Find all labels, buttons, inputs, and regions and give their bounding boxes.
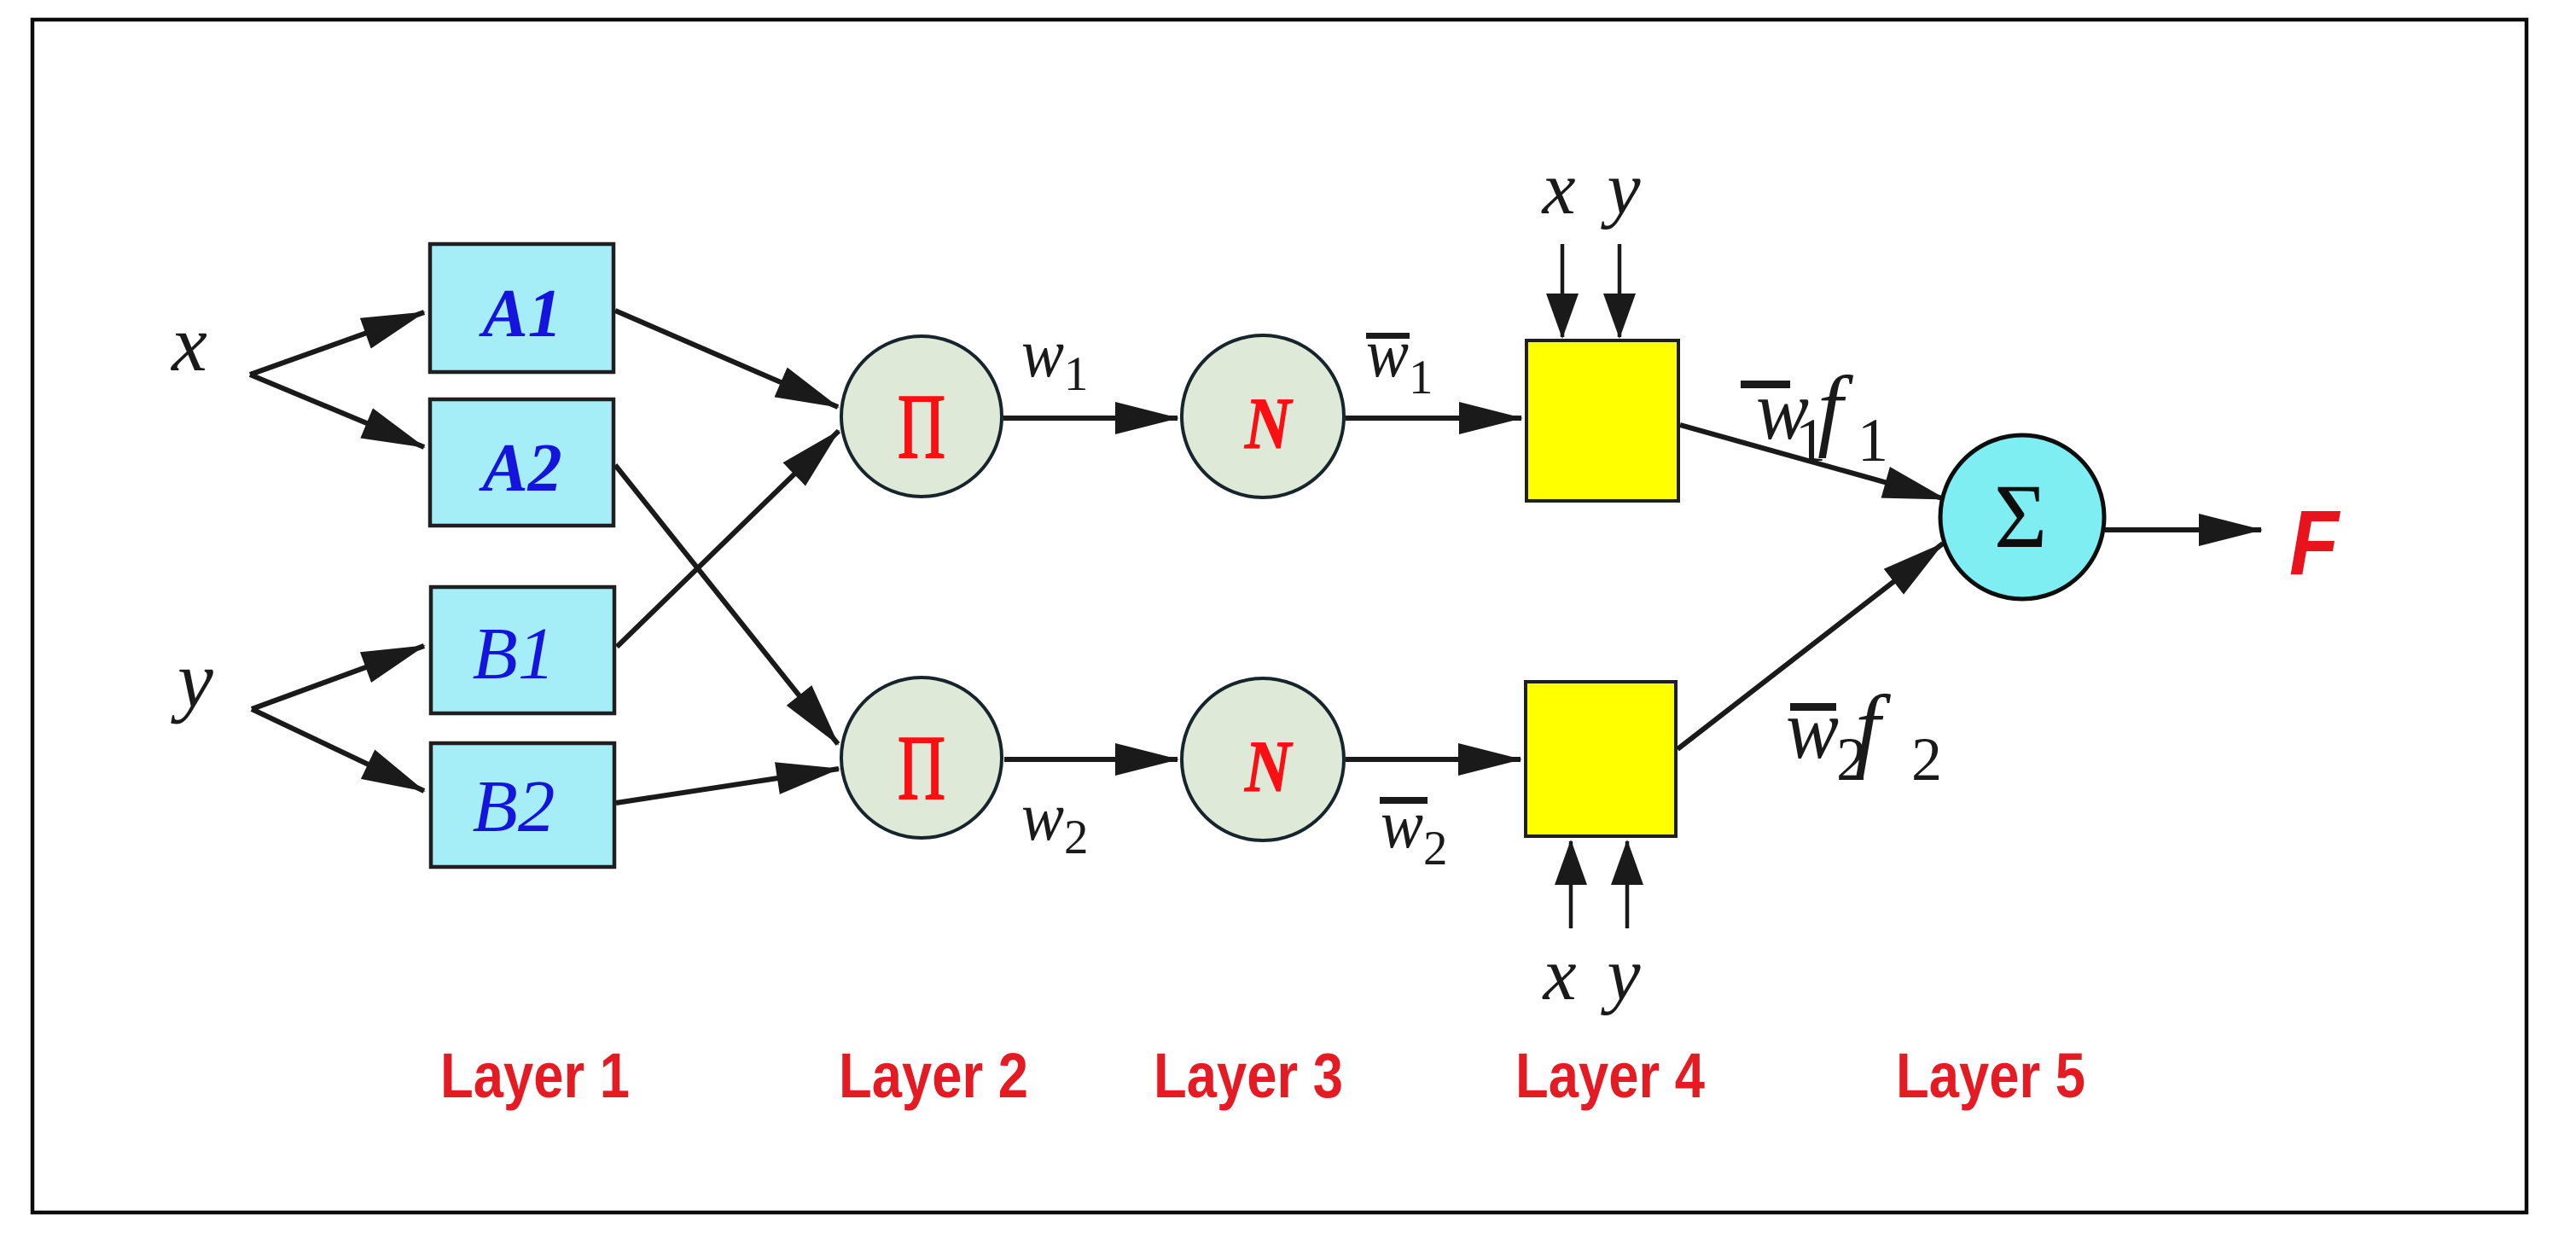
svg-text:Layer 2: Layer 2 <box>839 1040 1028 1111</box>
svg-text:Π: Π <box>898 718 945 819</box>
svg-text:Layer 5: Layer 5 <box>1896 1040 2085 1111</box>
svg-text:B2: B2 <box>473 765 555 847</box>
svg-text:A2: A2 <box>478 431 561 506</box>
svg-text:x: x <box>170 299 207 388</box>
svg-text:x: x <box>1540 148 1575 230</box>
svg-text:y: y <box>1600 148 1641 230</box>
svg-text:B1: B1 <box>473 612 555 695</box>
svg-text:Layer 4: Layer 4 <box>1515 1040 1705 1111</box>
svg-text:N: N <box>1244 382 1293 464</box>
svg-text:Π: Π <box>898 376 945 478</box>
svg-text:x: x <box>1541 933 1576 1016</box>
svg-text:Σ: Σ <box>1994 467 2047 567</box>
svg-text:N: N <box>1244 725 1293 807</box>
svg-text:F: F <box>2289 491 2341 594</box>
svg-text:y: y <box>171 636 213 724</box>
svg-text:y: y <box>1600 933 1641 1016</box>
svg-text:Layer 1: Layer 1 <box>440 1040 630 1111</box>
svg-text:Layer 3: Layer 3 <box>1154 1040 1343 1111</box>
svg-text:A1: A1 <box>478 276 561 352</box>
